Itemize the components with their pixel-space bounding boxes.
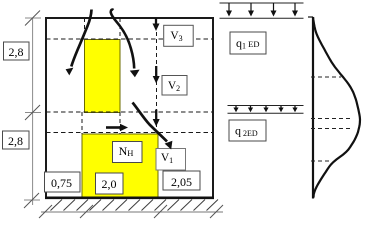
curve dash y=161 [311,160,330,162]
left dim slash top [25,11,40,26]
dashed line y=112 [46,111,213,113]
load q1 top line [220,2,304,4]
ground hatching [51,200,219,211]
load q1 bottom line [220,17,304,19]
q1 arrow 3 [271,3,277,17]
dashed line y=39 [46,38,213,40]
load q2 bottom line [228,112,304,114]
lower yellow pier [82,134,158,198]
load distribution curve [313,17,360,198]
arrow V3 vertical [153,18,160,31]
wall outline [46,18,213,198]
arrow horizontal NH [106,124,128,131]
label 0,75 [45,172,81,192]
left dim slash middle [25,105,40,120]
svg-text:2,8: 2,8 [9,45,24,59]
label V3 box [164,25,194,46]
bottom dimension line [41,211,223,213]
dashed line y=132.5 [46,132,213,134]
q2 arrow 4 [278,106,283,112]
curved arrow to V1 [133,103,173,150]
q2 arrow 5 [292,106,297,112]
left dim slash bottom [24,193,39,208]
label NH [113,142,143,163]
label 2,8 upper [4,42,30,60]
wall bottom edge [45,197,214,200]
arrow mid vertical [153,110,160,127]
q2 arrow 3 [263,106,268,112]
label q1ED [230,32,266,54]
axis top tick [308,16,313,18]
label V2 box [162,76,187,96]
svg-text:0,75: 0,75 [51,176,72,190]
q2 arrow 2 [248,106,253,112]
bottom dim tick x=160 [154,205,167,218]
q2 arrow 1 [233,106,238,112]
q1 arrow 4 [292,3,298,17]
dashed vertical x=82 middle [81,112,83,134]
bottom dim tick x=46 [39,205,52,218]
dashed vertical x=156.5 [156,18,158,132]
label 2,05 [163,171,200,190]
bottom dim tick x=86 [80,205,93,218]
upper yellow opening [85,40,121,113]
load curve axis [312,17,314,199]
label 2,8 lower [3,131,30,149]
label q2ED [229,120,266,141]
left dimension line [24,18,41,206]
q1 arrow 2 [248,3,254,17]
bottom dim tick x=216 [210,205,223,218]
dashed vertical x=120 middle [119,112,121,134]
q1 arrow 1 [226,3,232,17]
arrow V2 vertical [153,66,160,84]
svg-text:2,0: 2,0 [102,177,117,191]
curved arrow right [111,10,140,78]
curved arrow left [66,10,92,76]
label V1 box [156,149,186,171]
load q2 top line [228,105,304,107]
curve dash y=118.5 [311,118,353,120]
curve dash y=77 [311,76,341,78]
curve dash y=128.5 [311,128,352,130]
svg-text:2,05: 2,05 [171,175,192,189]
dashed vertical x=120 top [119,18,121,40]
label 2,0 [96,173,124,194]
dashed vertical x=84.5 top [84,18,86,40]
svg-text:2,8: 2,8 [8,134,23,148]
svg-text:q1 ED: q1 ED [236,36,259,51]
